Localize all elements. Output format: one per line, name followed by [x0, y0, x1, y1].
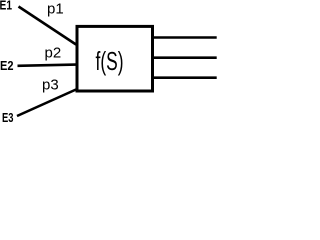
svg-text:p1: p1: [47, 1, 64, 18]
wire p3 (E3 to box): [17, 90, 76, 117]
output wire 3: [153, 76, 217, 79]
wire p2 (E2 to box): [18, 65, 77, 66]
function block f(S): [77, 26, 153, 91]
svg-text:E1: E1: [0, 0, 12, 12]
wire p1 (E1 to box): [19, 7, 77, 45]
svg-text:f(S): f(S): [96, 46, 124, 76]
svg-text:E2: E2: [0, 58, 14, 73]
svg-text:p2: p2: [45, 44, 62, 61]
output wire 2: [153, 56, 217, 59]
output wire 1: [153, 36, 217, 39]
svg-text:E3: E3: [2, 110, 14, 125]
svg-text:p3: p3: [42, 76, 59, 93]
